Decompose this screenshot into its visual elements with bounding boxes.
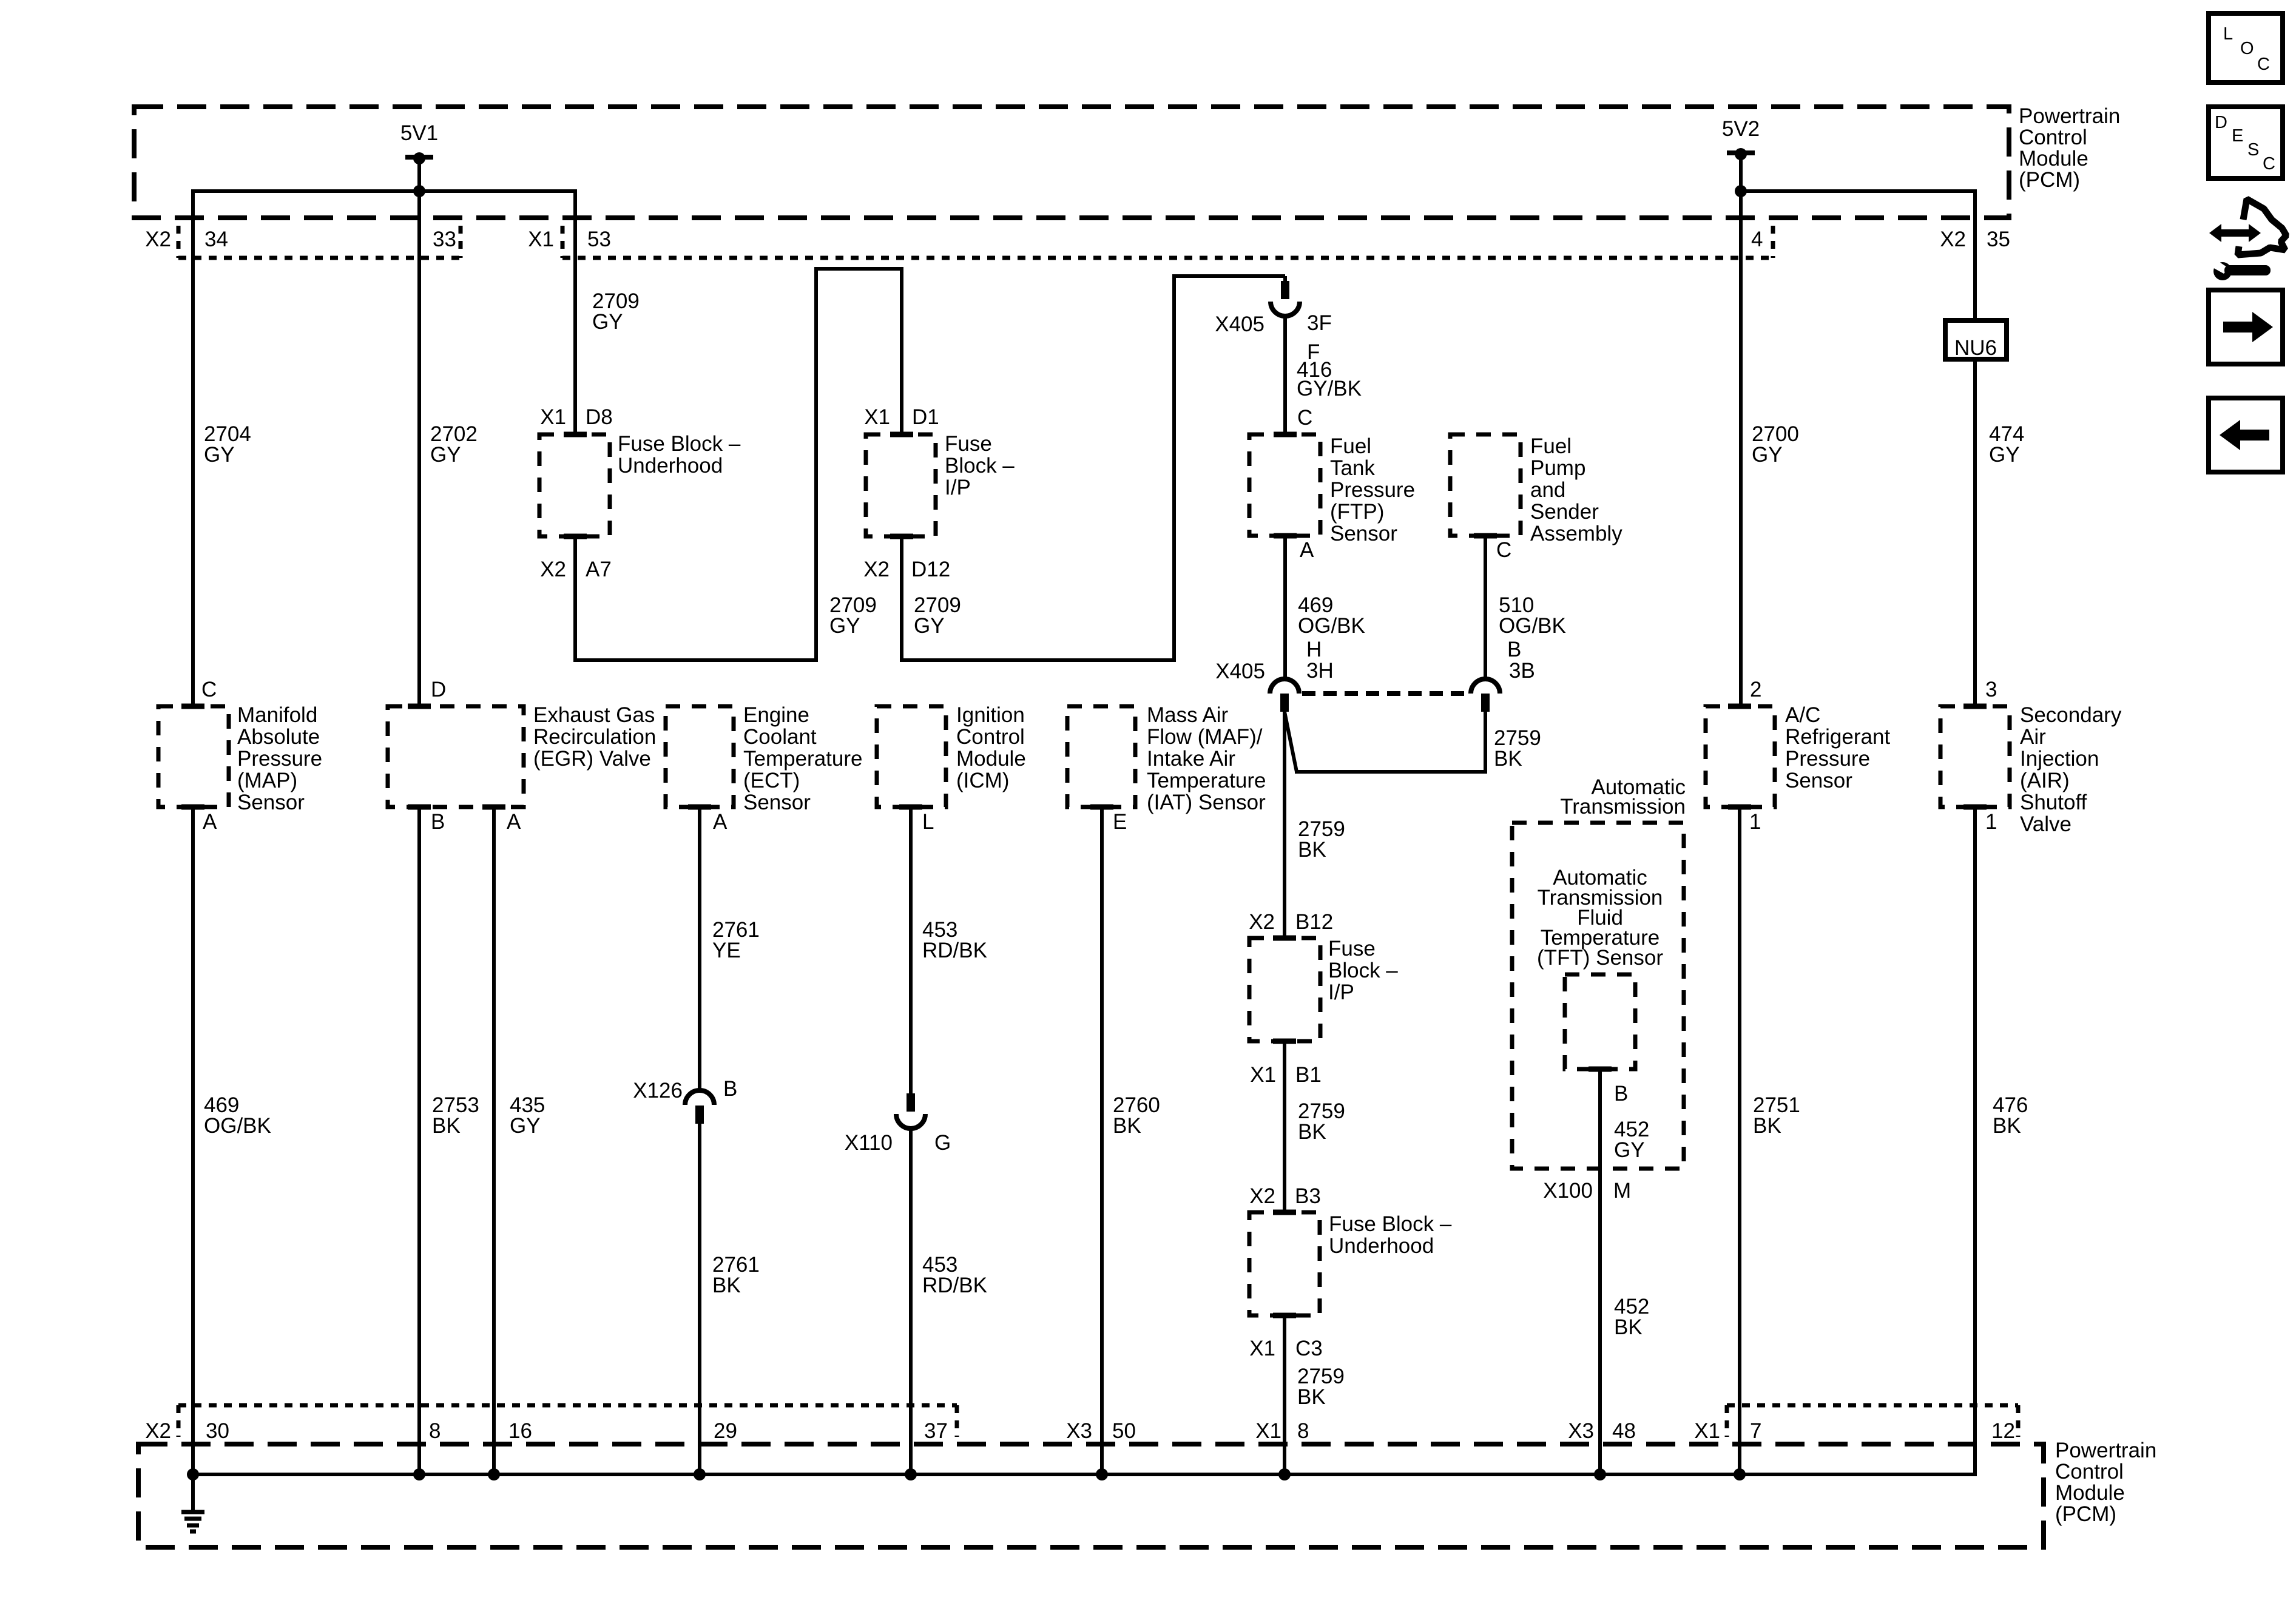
svg-text:I/P: I/P (1328, 981, 1354, 1004)
wire 469 OG/BK (FTP A to X405 3H) (1283, 536, 1287, 679)
node junction 37 (905, 1468, 917, 1480)
label wire 2704 GY (204, 422, 251, 467)
label wire 2702 GY (430, 422, 478, 467)
label AIR shutoff valve (2020, 703, 2122, 836)
ground symbol (181, 1474, 204, 1531)
label FTP sensor (1330, 434, 1415, 545)
label TFT sensor (1537, 866, 1663, 970)
svg-text:1: 1 (1985, 810, 1997, 834)
svg-text:B: B (723, 1077, 737, 1101)
label PCM top name (2019, 104, 2120, 192)
svg-text:C: C (2263, 154, 2275, 174)
svg-text:(AIR): (AIR) (2020, 769, 2070, 792)
svg-text:(TFT) Sensor: (TFT) Sensor (1537, 946, 1663, 970)
wire 2709 GY drop to I/P D1 (900, 269, 903, 434)
svg-text:BK: BK (432, 1114, 461, 1138)
svg-text:X405: X405 (1215, 312, 1264, 336)
svg-text:Fuse: Fuse (1328, 937, 1376, 960)
svg-text:M: M (1613, 1179, 1631, 1203)
svg-text:Mass Air: Mass Air (1147, 703, 1229, 727)
component TFT sensor inner box (1565, 974, 1635, 1069)
svg-text:L: L (2223, 24, 2233, 44)
svg-text:X1: X1 (1694, 1419, 1720, 1443)
label PCM bottom name (2055, 1439, 2156, 1526)
svg-text:X3: X3 (1066, 1419, 1092, 1443)
label X100 (1543, 1179, 1593, 1203)
svg-text:Valve: Valve (2020, 812, 2071, 836)
svg-text:B: B (1507, 638, 1521, 661)
svg-text:Flow (MAF)/: Flow (MAF)/ (1147, 725, 1263, 749)
svg-text:BK: BK (1297, 1385, 1326, 1409)
svg-text:(IAT) Sensor: (IAT) Sensor (1147, 791, 1266, 814)
svg-text:Ignition: Ignition (956, 703, 1025, 727)
svg-text:8: 8 (429, 1419, 441, 1443)
wire 2761 BK (X126 to PCM 29) (698, 1124, 701, 1474)
svg-text:BK: BK (1494, 747, 1522, 771)
label wire 510 OG/BK (1499, 593, 1566, 638)
svg-text:Fuse Block –: Fuse Block – (618, 432, 741, 456)
svg-text:GY: GY (430, 443, 461, 467)
svg-text:(EGR) Valve: (EGR) Valve (533, 747, 651, 771)
wire 2751 BK (AC 1 to PCM 7) (1738, 807, 1741, 1474)
label wire 469 OG/BK (1298, 593, 1365, 638)
label pin B TFT (1614, 1082, 1628, 1106)
label wire 416 GY/BK (1297, 358, 1362, 400)
svg-text:(FTP): (FTP) (1330, 500, 1384, 524)
svg-text:B1: B1 (1295, 1063, 1322, 1087)
svg-text:Sensor: Sensor (1785, 769, 1852, 792)
icon LOC box (2209, 13, 2283, 83)
svg-text:X1: X1 (864, 405, 890, 429)
component ECT sensor box (666, 706, 734, 807)
label 5V2 (1722, 117, 1760, 141)
svg-text:(ICM): (ICM) (956, 769, 1009, 792)
label pin X1 bottom left (1255, 1419, 1281, 1443)
label pin 50 (1112, 1419, 1136, 1443)
label pin X2 top (145, 228, 171, 251)
svg-text:GY: GY (204, 443, 235, 467)
svg-text:D12: D12 (911, 558, 950, 581)
svg-text:Fuse Block –: Fuse Block – (1329, 1212, 1452, 1236)
svg-text:H: H (1306, 638, 1322, 661)
label pin M X100 (1613, 1179, 1631, 1203)
wire 2709 GY (D12 down and over) (900, 536, 1176, 662)
label pin 29 (714, 1419, 737, 1443)
wire 2753 BK (EGR B to PCM 8) (417, 807, 421, 1474)
node junction 29 (694, 1468, 706, 1480)
svg-text:GY: GY (914, 614, 945, 638)
svg-text:Sensor: Sensor (237, 791, 305, 814)
wire 2759 BK jumper (1285, 712, 1487, 772)
label pin C MAP (201, 678, 217, 701)
label pin 3F (1307, 311, 1332, 335)
svg-text:Temperature: Temperature (1147, 769, 1266, 792)
svg-text:48: 48 (1612, 1419, 1636, 1443)
label Fuse Block - I/P (bottom) (1328, 937, 1398, 1004)
svg-text:GY: GY (1989, 443, 2020, 467)
wire 2759 BK (C3 to PCM pin 8) (1283, 1315, 1286, 1474)
svg-text:X1: X1 (1250, 1063, 1276, 1087)
label pin 8 right (1297, 1419, 1309, 1443)
svg-text:and: and (1530, 478, 1565, 502)
component Fuse Block - I/P (top) (866, 434, 936, 536)
svg-text:A: A (203, 810, 217, 834)
svg-text:50: 50 (1112, 1419, 1136, 1443)
connector strip X1 bottom dotted (1727, 1405, 2018, 1437)
svg-text:Fuel: Fuel (1330, 434, 1371, 458)
component AC Refrigerant Pressure Sensor box (1706, 706, 1775, 807)
label pin X2 A7 (540, 558, 612, 581)
svg-text:RD/BK: RD/BK (922, 939, 987, 962)
label pin 30 (206, 1419, 229, 1443)
module Automatic Transmission dashed box (1512, 823, 1684, 1169)
svg-text:Underhood: Underhood (618, 454, 723, 478)
svg-text:X2: X2 (145, 1419, 171, 1443)
label pin 12 (1991, 1419, 2015, 1443)
label pin 35 (1987, 228, 2010, 251)
svg-text:29: 29 (714, 1419, 737, 1443)
svg-text:33: 33 (433, 228, 456, 251)
svg-text:B12: B12 (1295, 910, 1333, 934)
svg-text:GY: GY (829, 614, 860, 638)
svg-text:Intake Air: Intake Air (1147, 747, 1235, 771)
svg-text:OG/BK: OG/BK (204, 1114, 271, 1138)
label pin A FTP (1300, 538, 1314, 562)
svg-text:Control: Control (2019, 126, 2087, 149)
svg-text:3: 3 (1985, 678, 1997, 701)
label pin X1 D8 (540, 405, 613, 429)
wire 452 GY (TFT B to X100 M) (1598, 1069, 1602, 1474)
label Fuse Block - I/P (top) (945, 432, 1015, 499)
svg-text:L: L (922, 810, 934, 834)
label Fuse Block - Underhood (top) (618, 432, 741, 478)
svg-text:GY: GY (1752, 443, 1783, 467)
node junction 48 (1594, 1468, 1606, 1480)
svg-text:(PCM): (PCM) (2019, 168, 2080, 192)
wire 474 GY (pin 35 to NU6) (1973, 191, 1977, 323)
wire 2700 GY (pin 4 to AC sensor 2) (1739, 191, 1743, 706)
svg-text:X2: X2 (863, 558, 890, 581)
wire bottom bus (193, 1473, 1975, 1476)
svg-text:Absolute: Absolute (237, 725, 320, 749)
connector strip X2 top dotted (178, 226, 461, 258)
svg-text:Pressure: Pressure (1785, 747, 1870, 771)
label pin X2 B12 (1249, 910, 1333, 934)
svg-text:Module: Module (2019, 147, 2088, 170)
label wire 2759 BK middle (1298, 1099, 1345, 1144)
svg-text:BK: BK (1298, 1120, 1326, 1144)
svg-text:D8: D8 (586, 405, 613, 429)
label pin 34 (204, 228, 228, 251)
icon service wrench (2212, 258, 2271, 280)
label wire 469 OG/BK left (204, 1093, 271, 1138)
power 5V1 symbol (405, 152, 433, 191)
svg-text:BK: BK (1614, 1315, 1643, 1339)
svg-text:E: E (2232, 126, 2243, 146)
svg-text:X2: X2 (1249, 910, 1275, 934)
wire 474 GY (NU6 to AIR valve 3) (1973, 359, 1977, 706)
svg-text:Secondary: Secondary (2020, 703, 2122, 727)
component NU6 option box (1945, 320, 2007, 360)
svg-text:OG/BK: OG/BK (1499, 614, 1566, 638)
label pin X1 B1 (1250, 1063, 1322, 1087)
connector X405 dashed link (1302, 691, 1468, 696)
component Fuse Block - Underhood (top) (539, 434, 610, 536)
svg-text:Powertrain: Powertrain (2019, 104, 2120, 128)
svg-text:D: D (431, 678, 446, 701)
module PCM bottom dashed box (138, 1444, 2044, 1547)
label X405 upper (1215, 312, 1264, 336)
label wire 2761 YE (712, 918, 760, 962)
label wire 453 RD/BK lower (922, 1253, 987, 1297)
label pin 16 (508, 1419, 532, 1443)
svg-text:16: 16 (508, 1419, 532, 1443)
label wire 2759 BK upper (1298, 817, 1345, 862)
component MAP sensor box (158, 706, 229, 807)
svg-text:Tank: Tank (1330, 456, 1375, 480)
svg-text:3B: 3B (1509, 659, 1535, 683)
icon DESC box (2209, 107, 2283, 178)
label pin B EGR (431, 810, 445, 834)
label pin 53 (587, 228, 611, 251)
svg-text:C: C (2257, 55, 2270, 74)
label wire 2700 GY (1752, 422, 1799, 467)
label pin G X110 (934, 1131, 951, 1155)
svg-text:A/C: A/C (1785, 703, 1820, 727)
svg-text:X100: X100 (1543, 1179, 1593, 1203)
svg-text:Fuse: Fuse (945, 432, 992, 456)
label pin A MAP (203, 810, 217, 834)
svg-text:GY: GY (1614, 1138, 1645, 1162)
svg-text:A: A (507, 810, 521, 834)
svg-text:Injection: Injection (2020, 747, 2099, 771)
label wire 2753 BK (432, 1093, 479, 1138)
svg-text:X110: X110 (845, 1131, 893, 1155)
component Fuse Block - I/P (bottom) (1249, 938, 1320, 1041)
label pin F (1307, 340, 1320, 364)
svg-text:X1: X1 (528, 228, 554, 251)
svg-text:X1: X1 (1255, 1419, 1281, 1443)
svg-text:A: A (1300, 538, 1314, 562)
wire 2709 GY (pin 53 to Fuse Block Underhood D8) (573, 189, 577, 434)
svg-text:RD/BK: RD/BK (922, 1274, 987, 1297)
label X405 lower (1215, 660, 1265, 683)
label pin D EGR (431, 678, 446, 701)
connector strip X2 bottom dotted (178, 1405, 957, 1437)
icon back arrow box (2209, 398, 2283, 472)
wire 2709 GY riser right (1172, 276, 1176, 662)
svg-text:(PCM): (PCM) (2055, 1502, 2116, 1526)
svg-text:Exhaust Gas: Exhaust Gas (533, 703, 655, 727)
label wire 435 GY (510, 1093, 545, 1138)
label pin E MAF (1113, 810, 1127, 834)
svg-text:I/P: I/P (945, 476, 971, 499)
label pin X3 left (1066, 1419, 1092, 1443)
power 5V2 symbol (1727, 148, 1755, 191)
svg-text:X2: X2 (540, 558, 566, 581)
connector X126 (685, 1090, 714, 1124)
label wire 474 GY (1989, 422, 2024, 467)
svg-text:S: S (2247, 140, 2259, 160)
node 5V2 bus junction (1735, 185, 1747, 197)
wire top bus right (5V2 to pin 35) (1741, 189, 1977, 193)
wire 2704 GY (pin 34 to MAP C) (191, 189, 195, 706)
svg-text:Control: Control (2055, 1460, 2124, 1484)
label pin 7 (1750, 1419, 1761, 1443)
label wire 2751 BK (1753, 1093, 1800, 1138)
label MAF IAT sensor (1147, 703, 1266, 814)
svg-text:GY/BK: GY/BK (1297, 377, 1362, 400)
svg-text:X2: X2 (1249, 1184, 1275, 1208)
wire 2709 GY top jog (814, 267, 903, 271)
label pin C FTP (1297, 406, 1312, 430)
svg-text:Temperature: Temperature (743, 747, 862, 771)
svg-text:Block –: Block – (945, 454, 1015, 478)
wire 416 GY/BK (3F to FTP C) (1283, 316, 1287, 434)
label wire 476 BK (1993, 1093, 2028, 1138)
svg-text:Block –: Block – (1328, 959, 1398, 982)
label AC sensor (1785, 703, 1890, 792)
label pin A EGR (507, 810, 521, 834)
wire 2709 GY to X405 3F (1172, 276, 1285, 281)
label pin A ECT (713, 810, 728, 834)
svg-text:35: 35 (1987, 228, 2010, 251)
svg-text:34: 34 (204, 228, 228, 251)
svg-text:12: 12 (1991, 1419, 2015, 1443)
svg-text:Underhood: Underhood (1329, 1234, 1434, 1258)
label pin X1 top (528, 228, 554, 251)
svg-text:Manifold: Manifold (237, 703, 317, 727)
svg-text:A7: A7 (586, 558, 612, 581)
node junction 7 (1734, 1468, 1746, 1480)
wire 476 BK (AIR 1 to PCM 12) (1973, 807, 1977, 1476)
svg-text:5V2: 5V2 (1722, 117, 1760, 141)
svg-text:(MAP): (MAP) (237, 769, 297, 792)
label pin B fuel pump (1507, 638, 1521, 661)
svg-text:X1: X1 (1249, 1337, 1275, 1360)
svg-text:8: 8 (1297, 1419, 1309, 1443)
label Fuel Pump and Sender Assembly (1530, 434, 1622, 545)
connector X110 (896, 1093, 925, 1129)
label pin B X126 (723, 1077, 737, 1101)
svg-text:3F: 3F (1307, 311, 1332, 335)
svg-text:Pressure: Pressure (1330, 478, 1415, 502)
svg-text:BK: BK (1298, 838, 1326, 862)
svg-text:A: A (713, 810, 728, 834)
label pin H (1306, 638, 1322, 661)
connector strip X1 top dotted (562, 226, 1773, 258)
svg-text:D1: D1 (912, 405, 939, 429)
svg-text:X2: X2 (145, 228, 171, 251)
label MAP sensor (237, 703, 322, 814)
label pin 3H (1306, 659, 1334, 683)
label wire 2709 GY lower right (914, 593, 961, 638)
svg-text:X1: X1 (540, 405, 566, 429)
component Fuel Tank Pressure FTP Sensor box (1249, 434, 1320, 536)
wire 469 OG/BK (MAP A to PCM 30) (191, 807, 195, 1474)
label pin X3 right (1568, 1419, 1594, 1443)
label pin 1 AC (1749, 810, 1761, 834)
node junction 16 (488, 1468, 500, 1480)
label pin 8 left (429, 1419, 441, 1443)
label pin X1 bottom right (1694, 1419, 1720, 1443)
component Fuel Pump and Sender Assembly box (1450, 434, 1521, 536)
svg-text:GY: GY (592, 310, 623, 334)
svg-text:D: D (2215, 113, 2227, 132)
label X110 (845, 1131, 893, 1155)
svg-text:2: 2 (1750, 678, 1761, 701)
svg-text:Refrigerant: Refrigerant (1785, 725, 1890, 749)
wire 2702 GY (pin 33 to EGR D) (417, 191, 421, 706)
label pin 37 (924, 1419, 948, 1443)
svg-text:BK: BK (712, 1274, 741, 1297)
component EGR valve box (388, 706, 524, 807)
wire 435 GY (EGR A to PCM 16) (492, 807, 496, 1474)
svg-text:GY: GY (510, 1114, 541, 1138)
svg-text:3H: 3H (1306, 659, 1334, 683)
label pin 48 (1612, 1419, 1636, 1443)
label pin X1 C3 (1249, 1337, 1323, 1360)
svg-text:Pressure: Pressure (237, 747, 322, 771)
label wire 2759 BK lower (1297, 1365, 1345, 1409)
connector X405 3H (1270, 679, 1299, 712)
svg-text:1: 1 (1749, 810, 1761, 834)
svg-text:Powertrain: Powertrain (2055, 1439, 2156, 1462)
svg-text:7: 7 (1750, 1419, 1761, 1443)
svg-text:YE: YE (712, 939, 741, 962)
label wire 453 RD/BK upper (922, 918, 987, 962)
node junction 8 (413, 1468, 425, 1480)
svg-text:Fuel: Fuel (1530, 434, 1572, 458)
svg-text:G: G (934, 1131, 951, 1155)
wire top bus left (5V1 to pins 34/33/53) (191, 189, 577, 193)
label pin X1 D1 (864, 405, 939, 429)
svg-text:Air: Air (2020, 725, 2046, 749)
label ECT sensor (743, 703, 862, 814)
component Fuse Block - Underhood (bottom) (1249, 1212, 1320, 1315)
node junction 50 (1096, 1468, 1108, 1480)
component ICM box (877, 706, 946, 807)
label wire 2709 GY upper (592, 289, 640, 334)
svg-text:4: 4 (1751, 228, 1763, 251)
svg-text:Engine: Engine (743, 703, 809, 727)
svg-text:B: B (431, 810, 445, 834)
svg-text:X126: X126 (633, 1079, 683, 1102)
connector X405 3B (1471, 679, 1500, 712)
svg-text:BK: BK (1993, 1114, 2021, 1138)
svg-text:Assembly: Assembly (1530, 522, 1622, 545)
icon forward arrow box (2209, 290, 2283, 364)
label EGR valve (533, 703, 656, 771)
svg-text:NU6: NU6 (1954, 336, 1997, 360)
label pin 3 AIR (1985, 678, 1997, 701)
wire 2759 BK (B1 to B3) (1283, 1041, 1286, 1212)
wire 2759 BK (3H to Fuse Block I/P B12) (1283, 712, 1286, 938)
svg-text:X3: X3 (1568, 1419, 1594, 1443)
label wire 2760 BK (1113, 1093, 1160, 1138)
svg-text:Module: Module (956, 747, 1026, 771)
label pin 4 (1751, 228, 1763, 251)
component AIR Shutoff Valve box (1940, 706, 2010, 807)
label pin X2 D12 (863, 558, 950, 581)
svg-text:C3: C3 (1295, 1337, 1323, 1360)
svg-text:C: C (1496, 538, 1511, 562)
svg-text:53: 53 (587, 228, 611, 251)
label wire 2759 BK at 3B (1494, 726, 1541, 771)
label wire 452 GY (1614, 1118, 1649, 1162)
label pin X2 B3 (1249, 1184, 1321, 1208)
label Automatic Transmission (1560, 775, 1686, 819)
